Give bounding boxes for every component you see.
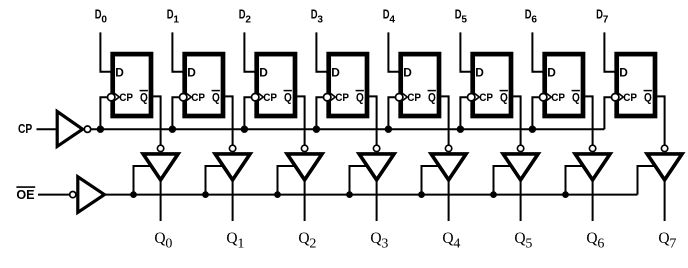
svg-text:0: 0	[165, 236, 172, 251]
wire OE rail to U4 enable	[422, 166, 441, 195]
svg-text:Q: Q	[298, 230, 309, 247]
node Q0 (data output 0)	[154, 230, 172, 251]
wire D7 to FF7 D input	[604, 32, 615, 71]
svg-text:4: 4	[389, 14, 395, 26]
tri-state buffer U2	[287, 154, 322, 180]
tri-state buffer U5	[503, 154, 538, 180]
svg-text:5: 5	[525, 236, 532, 251]
svg-text:D: D	[187, 67, 196, 79]
wire CP rail to FF1 clock	[172, 97, 179, 129]
junction OE rail / U5 enable stub	[490, 191, 497, 198]
d flip-flop FF7	[617, 54, 655, 116]
junction CP rail / FF6 clock stub	[529, 126, 536, 133]
wire FF3 Q output to buffer U3	[369, 96, 376, 144]
svg-text:Q: Q	[428, 92, 436, 104]
wire OE input to buffer	[38, 194, 70, 196]
wire FF6 Q output to buffer U6	[585, 96, 592, 144]
svg-text:1: 1	[237, 236, 244, 251]
node D3 (data input 3)	[311, 8, 323, 26]
svg-text:2: 2	[309, 236, 316, 251]
wire CP rail	[91, 128, 605, 130]
wire CP rail to FF4 clock	[388, 97, 395, 129]
junction CP rail / FF4 clock stub	[385, 126, 392, 133]
wire CP rail to FF3 clock	[316, 97, 323, 129]
svg-text:7: 7	[603, 14, 609, 26]
node D1 (data input 1)	[167, 8, 179, 26]
svg-text:0: 0	[101, 14, 107, 26]
wire CP rail to FF2 clock	[244, 97, 251, 129]
junction OE rail / U3 enable stub	[346, 191, 353, 198]
node Q2 (data output 2)	[298, 230, 316, 251]
clock bubble FF7 CP input	[612, 94, 619, 101]
wire CP rail to FF6 clock	[532, 97, 539, 129]
wire OE rail to U7 enable	[638, 166, 657, 195]
d flip-flop FF6	[545, 54, 583, 116]
wire U6 output to Q6	[592, 182, 594, 222]
d flip-flop FF4	[401, 54, 439, 116]
wire FF7 Q output to buffer U7	[657, 96, 664, 144]
wire OE rail to U5 enable	[494, 166, 513, 195]
d flip-flop FF3	[329, 54, 367, 116]
tri-state buffer U6	[575, 154, 610, 180]
node Q4 (data output 4)	[442, 230, 460, 251]
wire U4 output to Q4	[448, 182, 450, 222]
bubble U1 input	[229, 145, 235, 151]
junction OE rail / U1 enable stub	[202, 191, 209, 198]
svg-text:D: D	[475, 67, 484, 79]
wire U7 output to Q7	[664, 182, 666, 222]
wire FF1 Q output to buffer U1	[225, 96, 232, 144]
node Q7 (data output 7)	[658, 230, 676, 251]
svg-text:6: 6	[597, 236, 604, 251]
svg-text:Q: Q	[140, 92, 148, 104]
wire CP rail to FF5 clock	[460, 97, 467, 129]
svg-text:CP: CP	[18, 122, 32, 136]
svg-text:3: 3	[381, 236, 388, 251]
d flip-flop FF2	[257, 54, 295, 116]
svg-text:CP: CP	[407, 92, 421, 104]
svg-text:OE: OE	[16, 188, 34, 202]
svg-text:Q: Q	[226, 230, 237, 247]
inverter U9 (CP buffer)	[57, 112, 82, 147]
svg-text:4: 4	[453, 236, 460, 251]
svg-text:5: 5	[461, 14, 467, 26]
junction OE rail / U0 enable stub	[130, 191, 137, 198]
svg-text:Q: Q	[572, 92, 580, 104]
clock bubble FF2 CP input	[252, 94, 259, 101]
svg-text:Q: Q	[154, 230, 165, 247]
node D6 (data input 6)	[525, 8, 537, 26]
bubble U9 output	[84, 126, 90, 132]
junction CP rail / FF2 clock stub	[241, 126, 248, 133]
tri-state buffer U0	[143, 154, 178, 180]
wire U3 output to Q3	[376, 182, 378, 222]
wire OE rail to U1 enable	[206, 166, 225, 195]
wire FF0 Q output to buffer U0	[153, 96, 160, 144]
tri-state buffer U3	[359, 154, 394, 180]
svg-text:D: D	[619, 67, 628, 79]
tri-state buffer U4	[431, 154, 466, 180]
svg-text:Q: Q	[370, 230, 381, 247]
wire U5 output to Q5	[520, 182, 522, 222]
svg-text:CP: CP	[335, 92, 349, 104]
junction OE rail / U6 enable stub	[562, 191, 569, 198]
bubble U7 input	[661, 145, 667, 151]
svg-text:CP: CP	[263, 92, 277, 104]
svg-text:Q: Q	[212, 92, 220, 104]
node D5 (data input 5)	[455, 8, 467, 26]
node D7 (data input 7)	[596, 8, 608, 26]
junction OE rail / U2 enable stub	[274, 191, 281, 198]
wire FF2 Q output to buffer U2	[297, 96, 304, 144]
bubble U6 input	[589, 145, 595, 151]
clock bubble FF0 CP input	[108, 94, 115, 101]
wire OE rail	[104, 194, 637, 196]
wire OE rail to U2 enable	[278, 166, 297, 195]
junction CP rail / FF1 clock stub	[169, 126, 176, 133]
svg-text:Q: Q	[356, 92, 364, 104]
wire FF4 Q output to buffer U4	[441, 96, 448, 144]
buffer U10 (OE buffer)	[78, 177, 105, 213]
svg-text:CP: CP	[119, 92, 133, 104]
wire FF5 Q output to buffer U5	[513, 96, 520, 144]
wire OE rail to U3 enable	[350, 166, 369, 195]
svg-text:1: 1	[173, 14, 179, 26]
svg-text:Q: Q	[644, 92, 652, 104]
node D2 (data input 2)	[239, 8, 251, 26]
node D0 (data input 0)	[95, 8, 107, 26]
wire D6 to FF6 D input	[532, 32, 543, 71]
wire CP input to buffer	[37, 128, 58, 130]
svg-text:CP: CP	[551, 92, 565, 104]
node Q3 (data output 3)	[370, 230, 388, 251]
wire D5 to FF5 D input	[460, 32, 471, 71]
junction CP rail / FF5 clock stub	[457, 126, 464, 133]
bubble U2 input	[301, 145, 307, 151]
svg-text:Q: Q	[586, 230, 597, 247]
clock bubble FF6 CP input	[540, 94, 547, 101]
node Q1 (data output 1)	[226, 230, 244, 251]
d flip-flop FF1	[185, 54, 223, 116]
svg-text:CP: CP	[191, 92, 205, 104]
junction OE rail / U4 enable stub	[418, 191, 425, 198]
overline on OE label	[16, 186, 35, 188]
clock bubble FF1 CP input	[180, 94, 187, 101]
svg-text:3: 3	[317, 14, 323, 26]
svg-text:7: 7	[669, 236, 676, 251]
svg-text:Q: Q	[442, 230, 453, 247]
wire D1 to FF1 D input	[172, 32, 183, 71]
wire U0 output to Q0	[160, 182, 162, 222]
wire U2 output to Q2	[304, 182, 306, 222]
bubble U5 input	[517, 145, 523, 151]
wire D0 to FF0 D input	[100, 32, 111, 71]
tri-state buffer U1	[215, 154, 250, 180]
clock bubble FF4 CP input	[396, 94, 403, 101]
node D4 (data input 4)	[383, 8, 395, 26]
bubble U4 input	[445, 145, 451, 151]
svg-text:6: 6	[531, 14, 537, 26]
wire D4 to FF4 D input	[388, 32, 399, 71]
svg-text:Q: Q	[500, 92, 508, 104]
clock bubble FF3 CP input	[324, 94, 331, 101]
svg-text:D: D	[115, 67, 124, 79]
svg-text:CP: CP	[479, 92, 493, 104]
svg-text:D: D	[331, 67, 340, 79]
svg-text:D: D	[259, 67, 268, 79]
svg-text:D: D	[547, 67, 556, 79]
svg-text:D: D	[403, 67, 412, 79]
bubble U0 input	[157, 145, 163, 151]
wire U1 output to Q1	[232, 182, 234, 222]
bubble U10 input	[70, 192, 76, 198]
junction CP rail / FF3 clock stub	[313, 126, 320, 133]
junction CP rail / FF0 clock stub	[97, 126, 104, 133]
svg-text:Q: Q	[658, 230, 669, 247]
bubble U3 input	[373, 145, 379, 151]
wire CP rail to FF0 clock	[100, 97, 107, 129]
clock bubble FF5 CP input	[468, 94, 475, 101]
svg-text:Q: Q	[284, 92, 292, 104]
svg-text:CP: CP	[623, 92, 637, 104]
node Q6 (data output 6)	[586, 230, 604, 251]
wire OE rail to U6 enable	[566, 166, 585, 195]
wire D2 to FF2 D input	[244, 32, 255, 71]
wire CP rail to FF7 clock	[604, 97, 611, 129]
d flip-flop FF0	[113, 54, 151, 116]
wire OE rail to U0 enable	[134, 166, 153, 195]
tri-state buffer U7	[647, 154, 682, 180]
wire D3 to FF3 D input	[316, 32, 327, 71]
svg-text:2: 2	[245, 14, 251, 26]
d flip-flop FF5	[473, 54, 511, 116]
svg-text:Q: Q	[514, 230, 525, 247]
node Q5 (data output 5)	[514, 230, 532, 251]
